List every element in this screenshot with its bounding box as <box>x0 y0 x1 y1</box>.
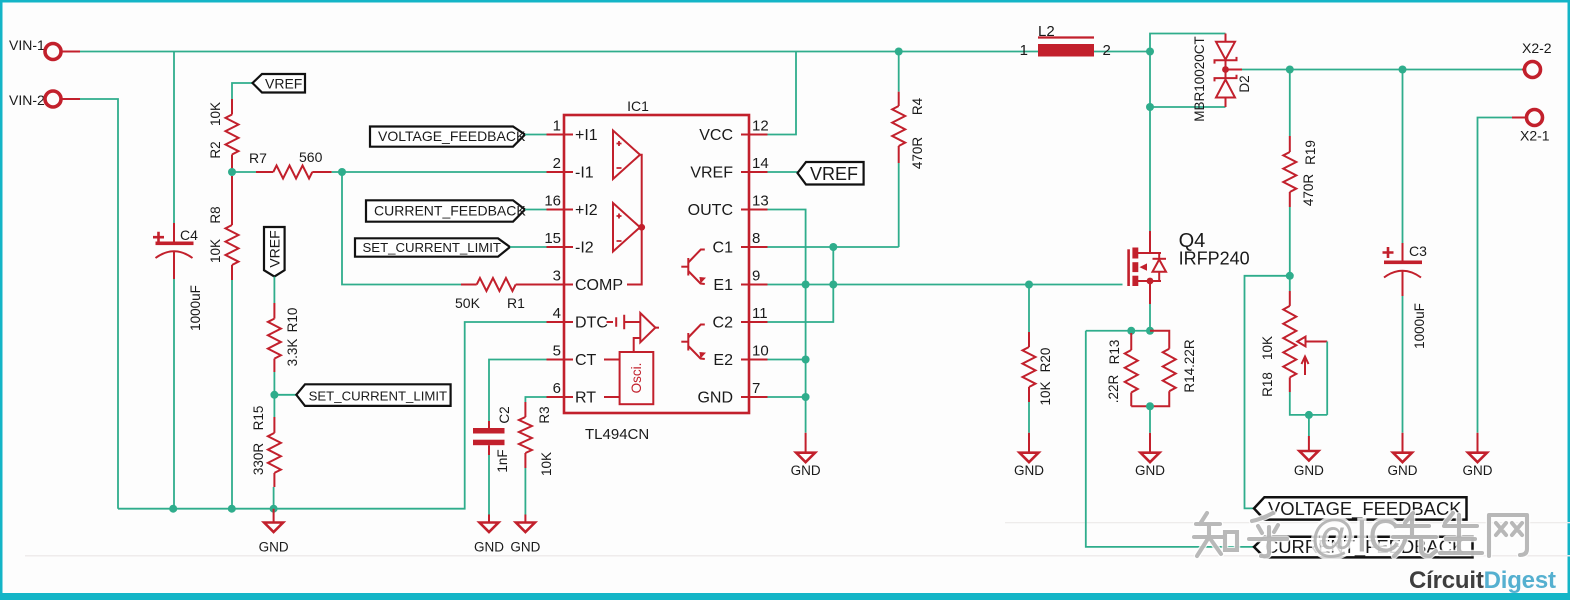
resistor R1 <box>461 284 477 286</box>
svg-text:10K: 10K <box>1260 336 1275 360</box>
ground GND R3 <box>524 515 526 523</box>
wire RT to R3 <box>525 397 546 402</box>
svg-text:TL494CN: TL494CN <box>585 426 649 443</box>
wire X2-1 to GND <box>1478 118 1513 433</box>
junction R10/R15 node <box>270 391 278 399</box>
wire E2 join <box>768 359 806 361</box>
svg-text:DTC: DTC <box>575 315 608 332</box>
svg-text:VIN-2: VIN-2 <box>9 92 45 108</box>
svg-text:6: 6 <box>553 380 561 397</box>
svg-text:14: 14 <box>752 155 769 172</box>
wire node down to R1 <box>342 172 461 285</box>
svg-text:R10: R10 <box>285 308 300 333</box>
svg-text:.22R: .22R <box>1106 374 1121 403</box>
svg-text:10K: 10K <box>208 239 223 263</box>
junction R19 top <box>1286 66 1294 74</box>
junction drain node <box>1146 103 1154 111</box>
svg-text:16: 16 <box>544 193 561 210</box>
svg-text:E2: E2 <box>713 352 733 369</box>
svg-text:VREF: VREF <box>267 230 283 267</box>
svg-text:1: 1 <box>1020 42 1028 59</box>
svg-text:560: 560 <box>299 149 323 165</box>
net label CURRENT_FEEDBACK (bottom) <box>1254 537 1473 558</box>
svg-text:9: 9 <box>752 268 760 285</box>
op-amp comparator2 (inside IC1) <box>613 203 640 252</box>
junction C3 top <box>1399 66 1407 74</box>
junction R15 bottom GND <box>270 505 278 513</box>
potentiometer R18 <box>1289 276 1291 291</box>
svg-text:3.3K: 3.3K <box>285 339 300 367</box>
svg-text:GND: GND <box>1388 463 1418 478</box>
svg-text:R3: R3 <box>537 406 552 423</box>
svg-text:470R: 470R <box>1301 174 1316 207</box>
svg-text:VIN-1: VIN-1 <box>9 37 45 53</box>
svg-text:MBR10020CT: MBR10020CT <box>1192 36 1207 122</box>
svg-text:GND: GND <box>510 540 540 555</box>
svg-text:GND: GND <box>697 390 733 407</box>
resistor R20 <box>1028 285 1030 333</box>
resistor R19 <box>1289 70 1291 137</box>
net label CURRENT_FEEDBACK (top) <box>366 200 525 221</box>
svg-text:VCC: VCC <box>699 127 733 144</box>
svg-text:SET_CURRENT_LIMIT: SET_CURRENT_LIMIT <box>363 240 502 255</box>
svg-text:C4: C4 <box>180 227 198 243</box>
junction R20/gate <box>1025 281 1033 289</box>
svg-text:GND: GND <box>1014 463 1044 478</box>
ground GND R20 <box>1028 433 1030 453</box>
wire output rail <box>1242 69 1522 71</box>
svg-text:10K: 10K <box>208 102 223 126</box>
wire VCC to top rail <box>768 52 797 135</box>
resistor R4 <box>898 52 900 92</box>
svg-text:2: 2 <box>1103 42 1111 59</box>
svg-text:RT: RT <box>575 390 596 407</box>
svg-text:SET_CURRENT_LIMIT: SET_CURRENT_LIMIT <box>309 389 448 404</box>
transistor Q1 (inside IC1) <box>687 258 689 276</box>
svg-text:IC1: IC1 <box>627 98 649 114</box>
svg-text:50K: 50K <box>455 295 481 311</box>
svg-text:CírcuitDigest: CírcuitDigest <box>1409 567 1556 594</box>
net label VREF (vertical) <box>264 227 285 277</box>
transistor Q2 (inside IC1) <box>687 333 689 351</box>
svg-text:C3: C3 <box>1409 243 1427 259</box>
net label VOLTAGE_FEEDBACK (top) <box>370 127 525 147</box>
svg-text:X2-1: X2-1 <box>1520 128 1550 144</box>
junction R19/R18 node <box>1286 272 1294 280</box>
wire CURRENT_FEEDBACK to pin16 <box>525 209 547 211</box>
resistor R3 <box>524 402 526 417</box>
transistor Q4 IRFP240 <box>1127 249 1130 286</box>
svg-text:2: 2 <box>553 155 561 172</box>
svg-text:8: 8 <box>752 230 760 247</box>
junction C1 branch <box>829 243 837 251</box>
wire R13 bottom rail <box>1131 405 1150 407</box>
svg-text:GND: GND <box>259 540 289 555</box>
junction R4 top rail <box>895 48 903 56</box>
svg-text:3: 3 <box>553 268 561 285</box>
resistor R2 <box>231 99 233 115</box>
svg-text:COMP: COMP <box>575 277 623 294</box>
ground GND R18 <box>1308 436 1310 451</box>
svg-text:VREF: VREF <box>265 76 302 92</box>
resistor R13 <box>1130 333 1132 350</box>
svg-text:R8: R8 <box>208 206 223 223</box>
resistor R8 <box>231 176 233 225</box>
capacitor C2 <box>488 421 490 428</box>
svg-text:R19: R19 <box>1303 140 1318 165</box>
svg-text:470R: 470R <box>910 137 925 170</box>
wire VIN-2 to bottom rail <box>80 99 118 509</box>
svg-text:VOLTAGE_FEEDBACK: VOLTAGE_FEEDBACK <box>378 128 526 144</box>
junction C2/E1 cross <box>829 281 837 289</box>
ground GND X2-1 <box>1477 433 1479 453</box>
svg-text:GND: GND <box>474 540 504 555</box>
junction C4 bottom <box>169 505 177 513</box>
junction R8 bottom <box>228 505 236 513</box>
svg-text:R2: R2 <box>208 141 223 158</box>
net label SET_CURRENT_LIMIT (mid) <box>296 384 450 406</box>
svg-text:X2-2: X2-2 <box>1522 40 1552 56</box>
diode D2 MBR10020CT <box>1225 34 1227 42</box>
op-amp comparator1 (inside IC1) <box>613 131 640 180</box>
svg-text:VREF: VREF <box>810 164 858 184</box>
wire C4 bottom <box>173 279 175 509</box>
svg-text:5: 5 <box>553 343 561 360</box>
wire C4 drop <box>173 52 175 224</box>
svg-text:7: 7 <box>752 380 760 397</box>
svg-text:OUTC: OUTC <box>688 202 733 219</box>
svg-text:10K: 10K <box>539 452 554 476</box>
svg-text:R1: R1 <box>507 295 525 311</box>
wire OUTC down <box>768 210 806 433</box>
svg-text:VREF: VREF <box>690 165 733 182</box>
svg-text:15: 15 <box>544 230 561 247</box>
svg-text:1: 1 <box>553 118 561 135</box>
buffer DTC (inside IC1) <box>607 315 641 329</box>
wire VOLTAGE_FEEDBACK to pin1 <box>525 134 547 136</box>
junction R2/R8/R7 <box>228 168 236 176</box>
svg-text:330R: 330R <box>251 443 266 476</box>
svg-text:IRFP240: IRFP240 <box>1179 249 1250 269</box>
ground GND C3 <box>1402 433 1404 453</box>
oscillator Osci box (inside IC1) <box>620 352 654 404</box>
wire R13R14 top rail <box>1086 330 1150 332</box>
svg-text:GND: GND <box>1463 463 1493 478</box>
resistor R14 <box>1150 331 1169 349</box>
svg-text:CURRENT_FEEDBACK: CURRENT_FEEDBACK <box>374 203 526 219</box>
svg-text:R4: R4 <box>910 97 925 115</box>
watermark zhihu <box>1194 511 1527 562</box>
wire node to pin2 <box>342 171 547 173</box>
wire Q4 source down <box>1149 304 1151 331</box>
ground GND R13R14 <box>1149 433 1151 453</box>
svg-text:13: 13 <box>752 193 769 210</box>
wire node to SET_CURRENT_LIMIT flag <box>274 394 296 396</box>
junction L2 out <box>1146 48 1154 56</box>
svg-text:-I2: -I2 <box>575 240 594 257</box>
op-amp IC1 TL494CN box and pins <box>564 115 749 413</box>
wire bottom ground rail <box>118 322 548 509</box>
svg-text:C1: C1 <box>713 240 734 257</box>
svg-text:R18: R18 <box>1260 372 1275 397</box>
wire VREF flag to R10 <box>273 277 275 303</box>
ground GND rail-left <box>273 509 275 523</box>
junction R18 bottom <box>1305 411 1313 419</box>
wire CT to C2 <box>489 360 547 422</box>
wire E1 to gate <box>768 284 1123 286</box>
net label VREF (top-left) <box>253 74 306 93</box>
wire GND7 join <box>768 396 806 398</box>
svg-text:+I1: +I1 <box>575 127 598 144</box>
svg-text:1000uF: 1000uF <box>188 285 203 331</box>
svg-text:GND: GND <box>1135 463 1165 478</box>
junction R13R14 bottom <box>1146 402 1154 410</box>
wire node to VOLTAGE_FEEDBACK <box>1245 276 1290 509</box>
svg-text:R13: R13 <box>1107 340 1122 365</box>
ground GND IC <box>805 433 807 453</box>
svg-text:R14.22R: R14.22R <box>1182 339 1197 393</box>
svg-text:1000uF: 1000uF <box>1412 303 1427 349</box>
junction OUTC/E2 <box>802 356 810 364</box>
capacitor C4 <box>173 223 175 242</box>
capacitor C3 <box>1402 70 1404 244</box>
svg-text:R20: R20 <box>1038 348 1053 373</box>
svg-text:R7: R7 <box>249 150 267 166</box>
svg-text:10: 10 <box>752 343 769 360</box>
svg-text:@IC: @IC <box>1310 511 1401 562</box>
svg-text:12: 12 <box>752 118 769 135</box>
svg-text:R15: R15 <box>251 406 266 431</box>
svg-text:+I2: +I2 <box>575 202 598 219</box>
wire C2 to GND <box>488 455 490 515</box>
svg-text:C2: C2 <box>713 315 734 332</box>
resistor R10 <box>273 303 275 319</box>
svg-text:D2: D2 <box>1237 75 1252 92</box>
svg-text:10K: 10K <box>1038 381 1053 405</box>
svg-text:11: 11 <box>752 305 768 322</box>
wire R13 left to CURRENT_FEEDBACK <box>1086 331 1254 547</box>
wire L2 node up to D2 top <box>1150 34 1226 52</box>
resistor R15 <box>273 395 275 417</box>
svg-text:-I1: -I1 <box>575 165 594 182</box>
net label VOLTAGE_FEEDBACK (bottom) <box>1254 497 1467 519</box>
net label SET_CURRENT_LIMIT (pin15) <box>355 238 510 256</box>
junction R7 right node <box>338 168 346 176</box>
svg-text:Osci.: Osci. <box>629 363 644 394</box>
wire SET_CURRENT_LIMIT to pin15 <box>510 246 547 248</box>
junction source node <box>1146 327 1154 335</box>
junction OUTC/GND7 <box>802 393 810 401</box>
svg-text:4: 4 <box>553 305 561 322</box>
junction OUTC/E1 <box>802 281 810 289</box>
svg-text:E1: E1 <box>713 277 733 294</box>
wire VREF pin14 <box>768 171 798 173</box>
svg-text:GND: GND <box>1294 463 1324 478</box>
resistor R7 <box>232 171 256 173</box>
svg-text:1nF: 1nF <box>495 449 510 472</box>
wire drain vertical <box>1149 52 1151 232</box>
wire R2 top to VREF <box>232 83 253 99</box>
svg-text:CT: CT <box>575 352 597 369</box>
wire D2 bottom to drain node <box>1150 106 1226 108</box>
wire VIN-1 top rail <box>80 51 1150 53</box>
ground GND C2 <box>488 515 490 523</box>
wire C2pin up <box>768 247 834 322</box>
svg-text:GND: GND <box>791 463 821 478</box>
net label VREF (pin14) <box>798 162 864 185</box>
wire C1 to R4 <box>768 246 899 248</box>
junction R13 top <box>1127 327 1135 335</box>
svg-text:C2: C2 <box>497 406 512 423</box>
